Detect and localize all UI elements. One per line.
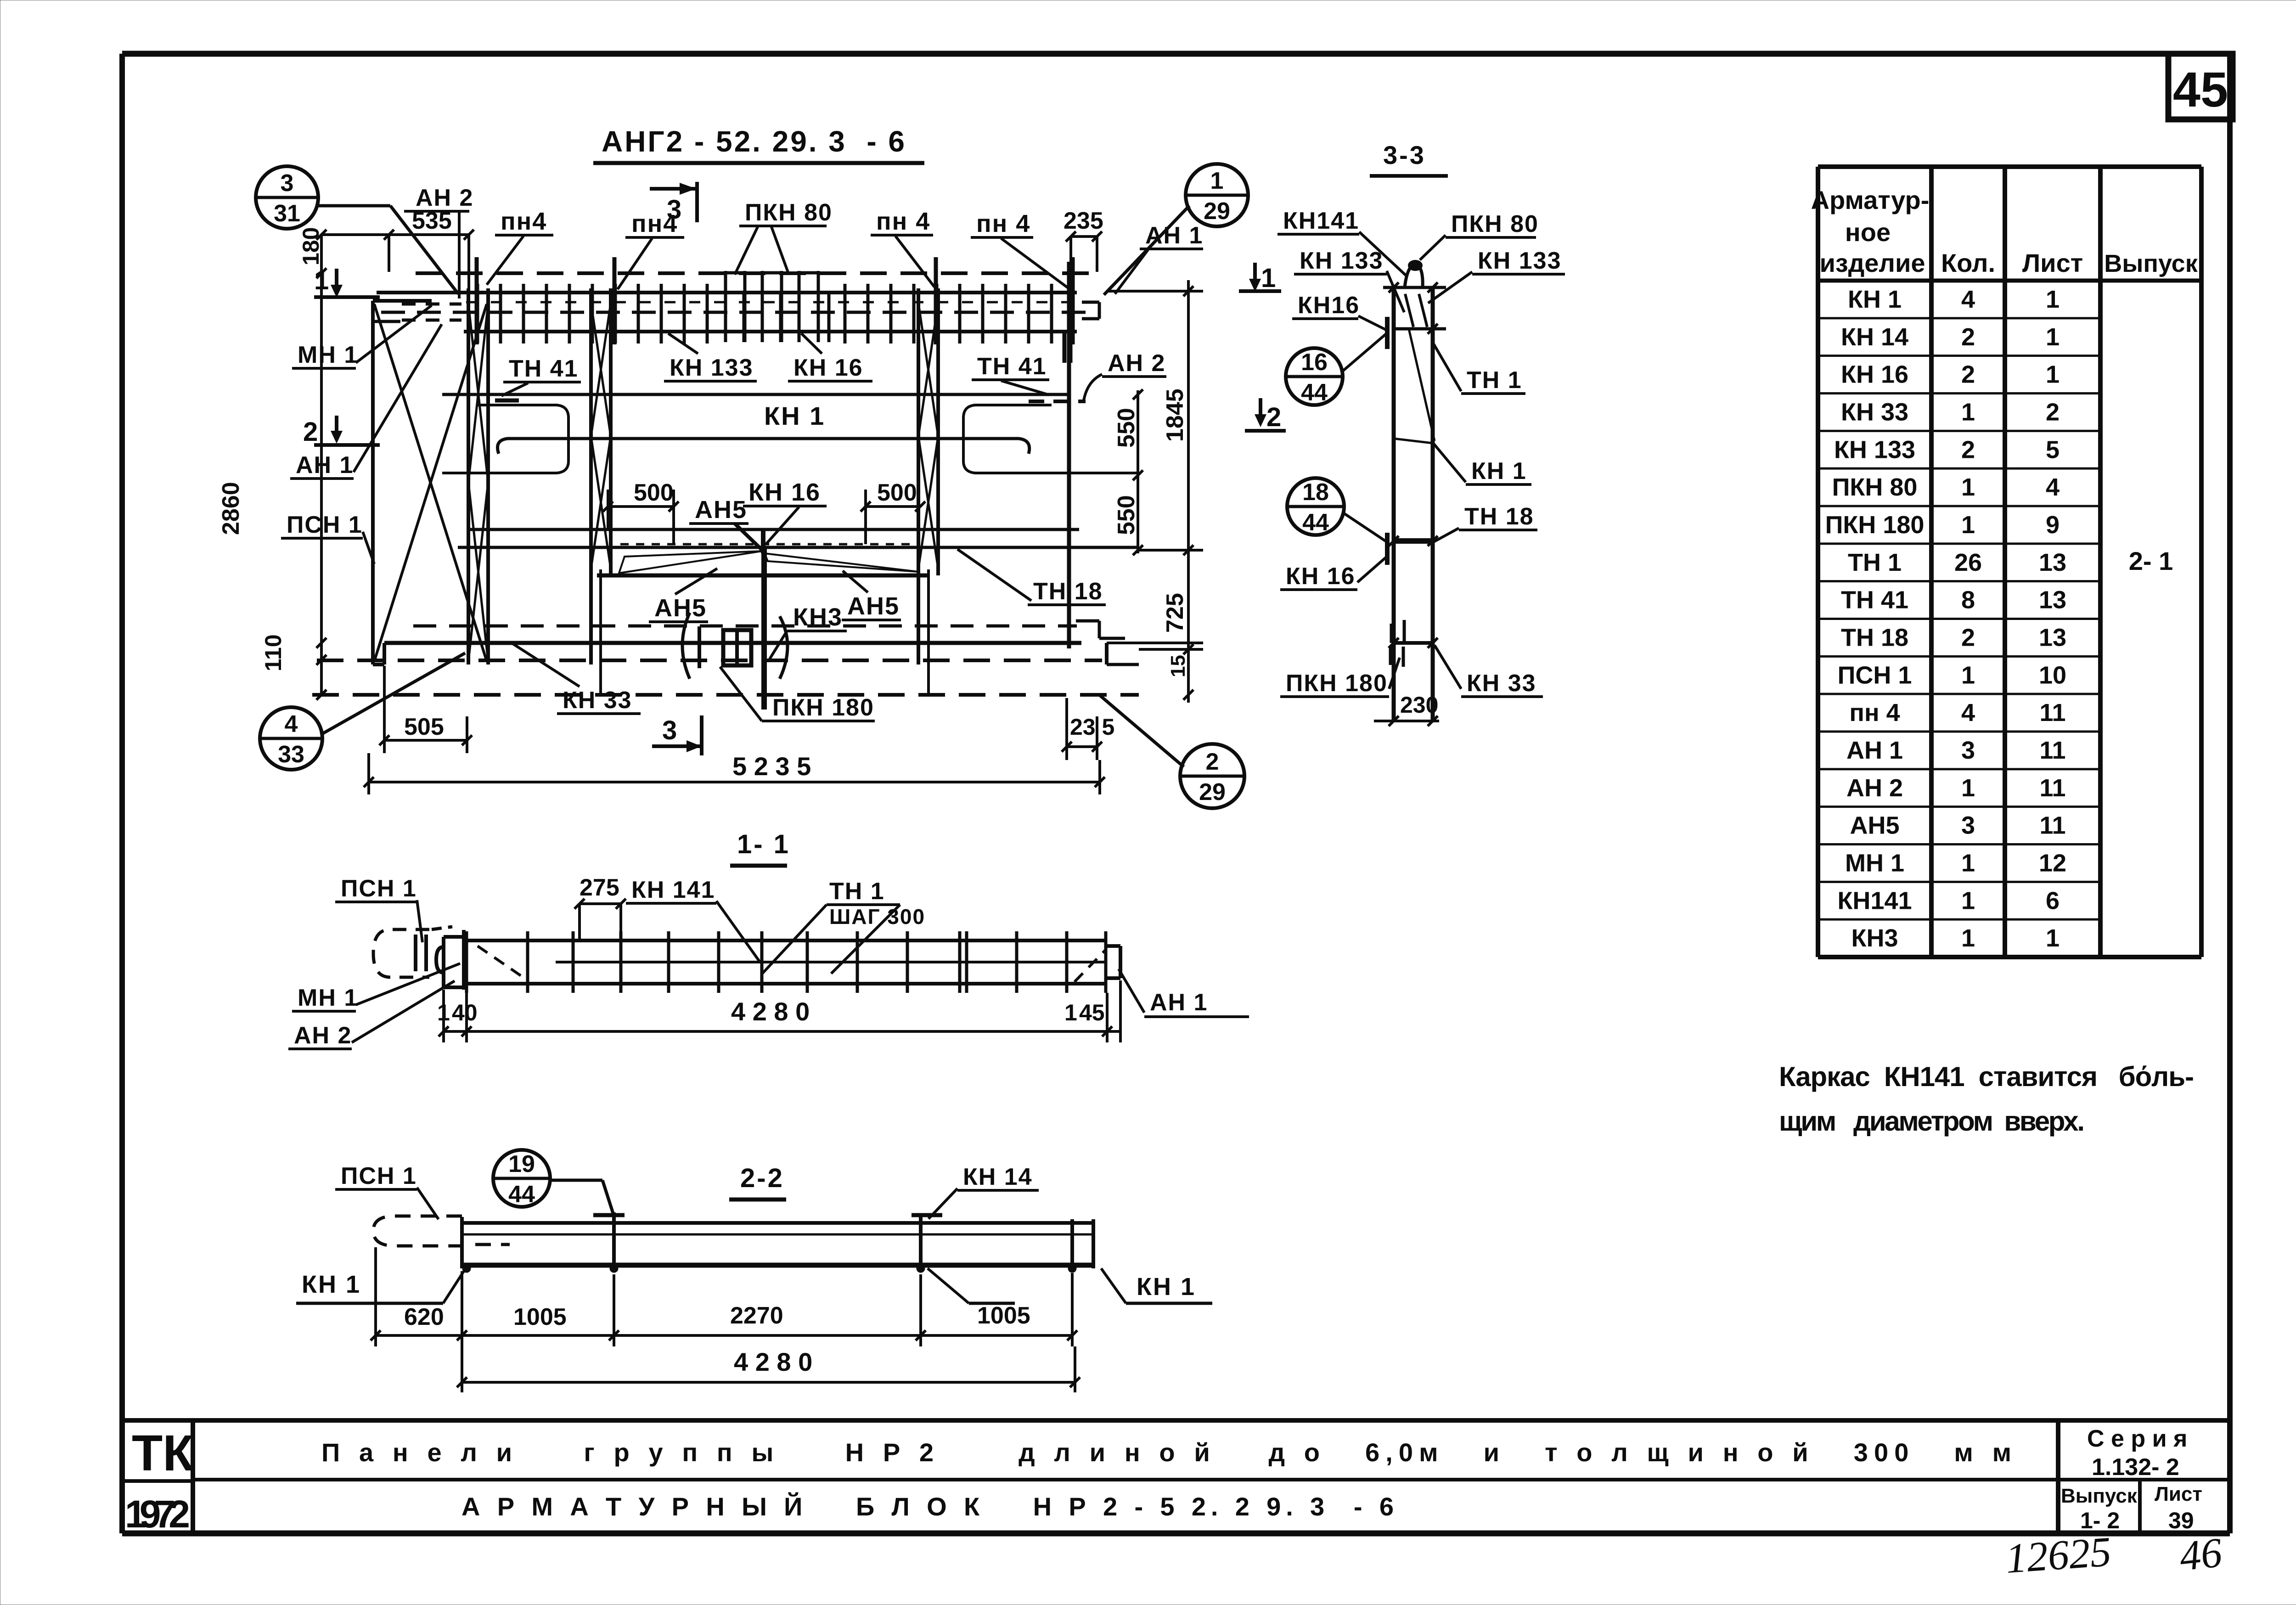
- svg-text:КН 33: КН 33: [1841, 398, 1908, 426]
- svg-text:4: 4: [1961, 286, 1975, 313]
- svg-text:39: 39: [2168, 1508, 2194, 1533]
- svg-text:пн 4: пн 4: [876, 208, 930, 235]
- svg-text:11: 11: [2039, 699, 2065, 726]
- 1-1 dashed diagonals: [478, 946, 526, 979]
- plan: TN18 long line: [458, 546, 1139, 549]
- svg-text:1005: 1005: [513, 1304, 567, 1330]
- svg-text:1: 1: [1210, 168, 1224, 194]
- 2-2 circle 19/44: [493, 1150, 550, 1207]
- svg-text:ШАГ 300: ШАГ 300: [829, 905, 925, 929]
- svg-text:230: 230: [1400, 692, 1438, 718]
- svg-text:Лист: Лист: [2022, 248, 2083, 277]
- svg-text:1: 1: [1961, 661, 1975, 689]
- plan: right panel bottom corner step: [1076, 619, 1099, 623]
- section cut 3 (top): [650, 187, 698, 191]
- svg-text:АН 2: АН 2: [294, 1022, 352, 1049]
- svg-text:4: 4: [1961, 699, 1975, 726]
- svg-text:2: 2: [303, 417, 318, 447]
- svg-text:изделие: изделие: [1819, 248, 1925, 277]
- svg-text:6: 6: [2046, 887, 2060, 914]
- svg-text:1: 1: [1961, 774, 1975, 802]
- svg-text:505: 505: [404, 714, 444, 740]
- svg-text:40: 40: [452, 1000, 478, 1025]
- svg-text:235: 235: [1064, 208, 1103, 234]
- svg-text:КН16: КН16: [1298, 292, 1360, 319]
- svg-text:1: 1: [1261, 263, 1276, 293]
- svg-text:П а н е л и г р у п п ы: П а н е л и г р у п п ы Н Р 2 д л и н о …: [321, 1438, 2011, 1467]
- 3-3 inner diagonal: [1409, 329, 1435, 441]
- svg-text:13: 13: [2039, 586, 2066, 614]
- svg-text:1: 1: [2046, 924, 2060, 952]
- svg-text:С е р и я: С е р и я: [2087, 1425, 2187, 1452]
- svg-text:3: 3: [281, 170, 294, 197]
- svg-text:46: 46: [2177, 1529, 2224, 1580]
- 2-2 tick marks: [612, 1212, 616, 1272]
- 1-1 beam ticks: [465, 931, 468, 993]
- cut marker 3 bottom: [652, 744, 703, 748]
- 3-3 bottom KN33 level: [1394, 641, 1433, 645]
- svg-text:275: 275: [580, 874, 619, 901]
- plan: TN41 left bar outline: [442, 405, 568, 473]
- 3-3 TN18 tie: [1394, 538, 1433, 544]
- svg-text:МН 1: МН 1: [298, 342, 358, 368]
- border frame: [122, 51, 2230, 57]
- svg-text:45: 45: [1079, 1000, 1105, 1025]
- plan: opening inner dashed edge: [620, 543, 916, 546]
- plan: right panel top corner step: [1082, 301, 1099, 304]
- svg-text:1: 1: [1961, 887, 1975, 914]
- svg-text:АН 1: АН 1: [1150, 989, 1208, 1016]
- plan: TN41 right bar outline: [963, 405, 1139, 473]
- svg-text:1: 1: [2046, 361, 2060, 389]
- svg-text:1: 1: [2046, 286, 2060, 313]
- svg-text:1972: 1972: [125, 1492, 190, 1536]
- svg-text:3-3: 3-3: [1383, 141, 1426, 169]
- svg-text:ТН 41: ТН 41: [1841, 586, 1908, 614]
- svg-text:МН 1: МН 1: [298, 985, 358, 1011]
- svg-text:КН 14: КН 14: [963, 1164, 1033, 1190]
- svg-text:ТН 1: ТН 1: [829, 878, 885, 905]
- plan: band second dashed row: [466, 301, 1075, 304]
- svg-text:1: 1: [314, 265, 329, 295]
- plan: mid horizontal bar (AN2 level): [442, 393, 1070, 396]
- svg-text:Каркас КН141 ставится бόль: Каркас КН141 ставится бόль-: [1779, 1061, 2194, 1092]
- svg-text:Выпуск: Выпуск: [2104, 250, 2198, 277]
- 3-3 circle 16/44: [1286, 348, 1343, 405]
- svg-text:КН 133: КН 133: [1300, 248, 1384, 274]
- svg-text:13: 13: [2039, 549, 2066, 576]
- svg-text:АН 2: АН 2: [1108, 350, 1165, 377]
- svg-text:АН5: АН5: [654, 594, 707, 622]
- 1-1 KN141 mid bar: [556, 961, 1104, 963]
- parts table: [1818, 164, 2201, 169]
- cut marker 1 right: [1253, 263, 1257, 288]
- svg-text:КН 141: КН 141: [631, 877, 715, 903]
- svg-text:2: 2: [1961, 361, 1975, 389]
- plan: right dim 550/550: [1137, 390, 1139, 553]
- svg-text:ПКН 180: ПКН 180: [1825, 511, 1925, 539]
- plan: PKN180 bottom detail: [682, 613, 690, 679]
- plan: column 1 (left vertical cage): [467, 288, 470, 665]
- svg-text:29: 29: [1199, 779, 1226, 805]
- svg-text:пн4: пн4: [501, 208, 547, 235]
- svg-text:2: 2: [1266, 402, 1281, 432]
- 2-2 PSN1 dashed hook: [373, 1216, 462, 1246]
- plan: bottom dim 505: [384, 739, 467, 742]
- svg-text:ПКН 80: ПКН 80: [1832, 473, 1918, 501]
- svg-text:1- 1: 1- 1: [737, 829, 790, 859]
- svg-text:АН5: АН5: [1850, 812, 1899, 839]
- svg-text:ное: ное: [1845, 218, 1891, 247]
- svg-text:31: 31: [274, 200, 300, 227]
- svg-text:11: 11: [2039, 812, 2065, 839]
- cut marker 2 right: [1259, 398, 1262, 423]
- svg-text:АН 1: АН 1: [296, 452, 354, 479]
- svg-text:1: 1: [1961, 473, 1975, 501]
- svg-text:4: 4: [285, 711, 298, 738]
- plan: KN1 long bar with hooked ends: [498, 439, 1030, 454]
- svg-text:1: 1: [2046, 323, 2060, 351]
- plan: top rebar band top chord: [377, 291, 1077, 294]
- svg-text:пн4: пн4: [631, 210, 678, 237]
- svg-text:12: 12: [2039, 849, 2066, 877]
- svg-text:44: 44: [508, 1181, 535, 1208]
- svg-text:15: 15: [1167, 655, 1189, 677]
- plan: left big X brace: [374, 304, 487, 661]
- callout circle 2/29: [1180, 744, 1244, 808]
- plan: dim 500 right: [866, 505, 920, 508]
- 1-1 PSN1 dashed hook: [373, 929, 429, 977]
- svg-text:500: 500: [634, 479, 674, 506]
- svg-text:10: 10: [2039, 661, 2066, 689]
- svg-text:АН 2: АН 2: [416, 185, 473, 211]
- svg-text:Выпуск: Выпуск: [2061, 1485, 2138, 1507]
- 1-1 right end hook: [1107, 944, 1120, 948]
- svg-text:ТН 18: ТН 18: [1033, 578, 1103, 605]
- 1-1 left end block: [442, 937, 445, 987]
- svg-text:ПСН 1: ПСН 1: [287, 512, 363, 538]
- svg-text:ПКН 180: ПКН 180: [1286, 670, 1388, 697]
- 3-3 top box (PKN80): [1383, 286, 1446, 289]
- svg-text:ТН 18: ТН 18: [1464, 503, 1534, 530]
- svg-text:19: 19: [508, 1151, 535, 1177]
- svg-text:2- 1: 2- 1: [2129, 546, 2173, 575]
- svg-text:550: 550: [1113, 408, 1140, 448]
- svg-text:8: 8: [1961, 586, 1975, 614]
- svg-text:2270: 2270: [730, 1302, 783, 1329]
- svg-text:ПСН 1: ПСН 1: [1838, 661, 1912, 689]
- svg-text:КН3: КН3: [1851, 924, 1898, 952]
- 3-3 bottom PKN180 marks: [1390, 624, 1393, 643]
- svg-text:ТК: ТК: [132, 1425, 194, 1481]
- svg-text:ТН 18: ТН 18: [1841, 624, 1908, 651]
- svg-text:13: 13: [2039, 624, 2066, 651]
- svg-text:Кол.: Кол.: [1941, 248, 1995, 277]
- svg-text:1: 1: [1961, 511, 1975, 539]
- svg-text:44: 44: [1301, 379, 1328, 406]
- svg-text:КН 1: КН 1: [1471, 458, 1527, 484]
- svg-text:44: 44: [1302, 509, 1329, 536]
- 1-1 dims: [444, 1030, 1120, 1033]
- svg-text:ТН 1: ТН 1: [1467, 367, 1522, 394]
- svg-text:Арматур-: Арматур-: [1811, 186, 1930, 214]
- svg-text:11: 11: [2039, 737, 2065, 764]
- svg-text:5 2 3 5: 5 2 3 5: [732, 752, 811, 781]
- svg-text:1005: 1005: [977, 1302, 1030, 1329]
- plan: column 2: [589, 288, 593, 665]
- svg-text:2: 2: [1961, 323, 1975, 351]
- 2-2 dim 4280: [462, 1381, 1075, 1384]
- svg-text:16: 16: [1301, 349, 1328, 376]
- svg-text:КН 16: КН 16: [748, 479, 821, 506]
- plan: right dim 1845/725/15: [1187, 280, 1190, 703]
- 3-3 circle 18/44: [1287, 478, 1344, 535]
- svg-text:1: 1: [1961, 398, 1975, 426]
- svg-text:КН 16: КН 16: [793, 355, 863, 381]
- svg-text:1.132- 2: 1.132- 2: [2092, 1454, 2179, 1481]
- plan: long mid line: [470, 528, 1079, 531]
- plan: top dashed panel edge: [416, 271, 1095, 275]
- svg-text:КН 14: КН 14: [1841, 323, 1908, 351]
- svg-text:щим диаметром вверх.: щим диаметром вверх.: [1779, 1106, 2085, 1137]
- svg-text:2860: 2860: [218, 482, 244, 535]
- svg-text:12625: 12625: [2004, 1528, 2113, 1582]
- svg-text:КН 133: КН 133: [670, 355, 754, 381]
- plan: left dim chain: [320, 235, 323, 695]
- svg-text:КН 33: КН 33: [1467, 670, 1536, 697]
- plan: dim 535: [321, 233, 469, 236]
- svg-text:КН 1: КН 1: [302, 1271, 361, 1298]
- svg-text:КН 133: КН 133: [1478, 248, 1562, 274]
- plan: PN4 anchor ticks (tall): [475, 257, 479, 344]
- 2-2 dim chain: [376, 1334, 1072, 1337]
- plan: band mid dashed line: [381, 311, 1097, 314]
- svg-text:2-2: 2-2: [740, 1163, 784, 1193]
- svg-text:33: 33: [278, 741, 304, 768]
- 2-2 beam: [462, 1221, 1093, 1225]
- 2-2 inner dash: [475, 1243, 510, 1246]
- title block frame: [122, 1418, 2230, 1423]
- svg-text:КН 16: КН 16: [1841, 361, 1908, 389]
- svg-text:4 2 8 0: 4 2 8 0: [734, 1347, 812, 1376]
- svg-text:3: 3: [1961, 812, 1975, 839]
- svg-text:500: 500: [877, 479, 917, 506]
- plan: bottom band: [413, 625, 1077, 628]
- svg-text:110: 110: [260, 634, 286, 671]
- svg-text:КН 133: КН 133: [1834, 436, 1915, 463]
- svg-text:АН5: АН5: [695, 496, 747, 524]
- svg-text:ТН 41: ТН 41: [509, 355, 579, 382]
- 3-3 dim 230: [1374, 720, 1439, 722]
- svg-text:КН 1: КН 1: [1137, 1273, 1196, 1301]
- plan: dim 500 left: [608, 505, 674, 508]
- svg-text:КН 1: КН 1: [764, 401, 825, 430]
- plan: bottom dim 5235: [369, 781, 1100, 783]
- svg-text:ПКН 180: ПКН 180: [772, 694, 874, 721]
- svg-text:26: 26: [1954, 549, 1982, 576]
- plan: column 3: [917, 288, 920, 665]
- plan: left panel edge: [371, 301, 375, 665]
- svg-text:пн 4: пн 4: [1849, 699, 1900, 726]
- svg-text:АН 1: АН 1: [1145, 222, 1203, 249]
- 1-1 beam chords: [467, 939, 1107, 942]
- plan: opening bottom line: [597, 574, 928, 578]
- plan: KN16 center anchor tick: [761, 530, 765, 553]
- svg-text:4 2 8 0: 4 2 8 0: [731, 997, 810, 1026]
- svg-text:КН 1: КН 1: [1848, 286, 1902, 313]
- svg-text:ПСН 1: ПСН 1: [341, 875, 417, 902]
- svg-text:2: 2: [1961, 624, 1975, 651]
- svg-text:КН3: КН3: [793, 603, 843, 631]
- 3-3 KN16 tick top: [1385, 317, 1390, 349]
- page number box 45: [2168, 54, 2233, 119]
- callout circle 3/31: [256, 166, 318, 229]
- svg-text:Лист: Лист: [2155, 1483, 2202, 1505]
- svg-text:45: 45: [2173, 62, 2228, 117]
- plan: band bottom chord: [464, 330, 1077, 333]
- svg-text:18: 18: [1302, 479, 1329, 506]
- plan: band vertical rebar ticks: [476, 284, 479, 344]
- svg-text:180: 180: [298, 227, 324, 265]
- svg-text:ТН 1: ТН 1: [1848, 549, 1902, 576]
- svg-text:ТН 41: ТН 41: [977, 353, 1047, 380]
- svg-text:1: 1: [1961, 924, 1975, 952]
- svg-text:КН141: КН141: [1283, 208, 1359, 234]
- svg-text:620: 620: [404, 1304, 444, 1330]
- plan: extra band tick: [827, 294, 831, 342]
- plan: PKN80 corrugated marks: [724, 271, 727, 342]
- svg-text:23 5: 23 5: [1070, 714, 1114, 740]
- svg-text:4: 4: [2046, 473, 2060, 501]
- svg-text:1: 1: [1064, 1000, 1077, 1025]
- svg-text:3: 3: [1961, 737, 1975, 764]
- svg-text:550: 550: [1113, 495, 1140, 535]
- plan: right inner vertical (AN2 bar): [1067, 262, 1071, 648]
- svg-text:1: 1: [437, 1000, 450, 1025]
- plan: bottom dim 235: [1067, 745, 1097, 748]
- svg-text:КН 33: КН 33: [563, 687, 632, 714]
- svg-text:3: 3: [662, 715, 677, 745]
- svg-text:КН 16: КН 16: [1286, 563, 1356, 590]
- svg-text:АН5: АН5: [847, 592, 900, 620]
- svg-text:МН 1: МН 1: [1845, 849, 1904, 877]
- svg-text:ПКН 80: ПКН 80: [745, 199, 833, 226]
- plan: KN3 vertical bar: [761, 547, 767, 710]
- svg-text:725: 725: [1162, 593, 1188, 633]
- svg-text:29: 29: [1204, 198, 1230, 225]
- svg-text:2: 2: [1206, 749, 1219, 775]
- svg-text:2: 2: [1961, 436, 1975, 463]
- svg-text:АН 1: АН 1: [1846, 737, 1903, 764]
- svg-text:11: 11: [2039, 774, 2065, 802]
- svg-text:ПСН 1: ПСН 1: [341, 1163, 417, 1189]
- svg-text:ПКН 80: ПКН 80: [1451, 211, 1539, 237]
- svg-text:1845: 1845: [1162, 389, 1188, 442]
- svg-text:КН141: КН141: [1837, 887, 1912, 914]
- svg-text:АН 2: АН 2: [1846, 774, 1903, 802]
- 3-3 KN16 tick bottom: [1385, 533, 1390, 565]
- svg-text:пн 4: пн 4: [976, 210, 1030, 237]
- svg-text:5: 5: [2046, 436, 2060, 463]
- plan: AN5 thin wedges: [619, 551, 762, 573]
- svg-text:1: 1: [1961, 849, 1975, 877]
- callout circle 4/33: [260, 707, 322, 770]
- svg-text:9: 9: [2046, 511, 2060, 539]
- svg-text:2: 2: [2046, 398, 2060, 426]
- 3-3 member verticals: [1392, 287, 1396, 721]
- plan: dim 235 top right: [1071, 235, 1097, 238]
- callout circle 1/29: [1186, 164, 1248, 226]
